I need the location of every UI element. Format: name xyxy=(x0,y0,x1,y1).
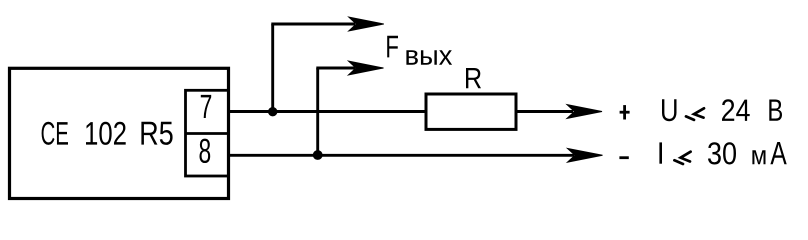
arrowhead - output xyxy=(568,148,603,162)
wire resistor to + arrow xyxy=(516,110,573,113)
minus sign xyxy=(619,156,628,159)
pin 7 label "7" xyxy=(201,95,211,118)
wire pin8 to - arrow xyxy=(229,154,575,157)
node B junction on pin8 wire xyxy=(313,150,323,160)
label A Cyrillic "А" xyxy=(770,142,786,164)
arrowhead Fvyh branch1 xyxy=(349,17,384,31)
resistor R xyxy=(426,94,516,129)
label m Cyrillic "м" xyxy=(752,150,765,164)
device label CE "CE" xyxy=(42,122,68,145)
plus sign xyxy=(620,105,630,119)
resistor value label R "R" xyxy=(466,68,481,88)
terminal block xyxy=(186,90,229,176)
net label subscript vyh "вых" xyxy=(406,50,452,64)
label I (current) xyxy=(659,142,662,163)
device label R5 "R5" xyxy=(141,122,172,145)
pin 8 label "8" xyxy=(200,139,211,163)
node A junction on pin7 wire xyxy=(268,107,277,116)
terminal divider xyxy=(186,132,229,135)
arrowhead + output xyxy=(567,105,602,119)
wire branch1 vertical xyxy=(271,24,274,112)
label 30 "30" xyxy=(708,142,736,164)
device U1 box (CE 102 R5 energy meter) xyxy=(10,68,229,198)
label V Cyrillic "В" xyxy=(769,100,782,121)
less-or-equal sign (upper) xyxy=(686,108,704,120)
wire branch1 horizontal xyxy=(271,23,355,26)
less-or-equal sign (lower) xyxy=(674,152,690,164)
device label 102 "102" xyxy=(86,122,126,145)
wire branch2 vertical xyxy=(316,68,319,155)
label 24 "24" xyxy=(722,99,750,121)
wire branch2 horizontal xyxy=(316,67,355,70)
label U "U" xyxy=(662,99,677,121)
arrowhead Fvyh branch2 xyxy=(349,61,384,75)
net label F "F" xyxy=(387,36,398,58)
wire pin7 to resistor xyxy=(229,110,428,113)
